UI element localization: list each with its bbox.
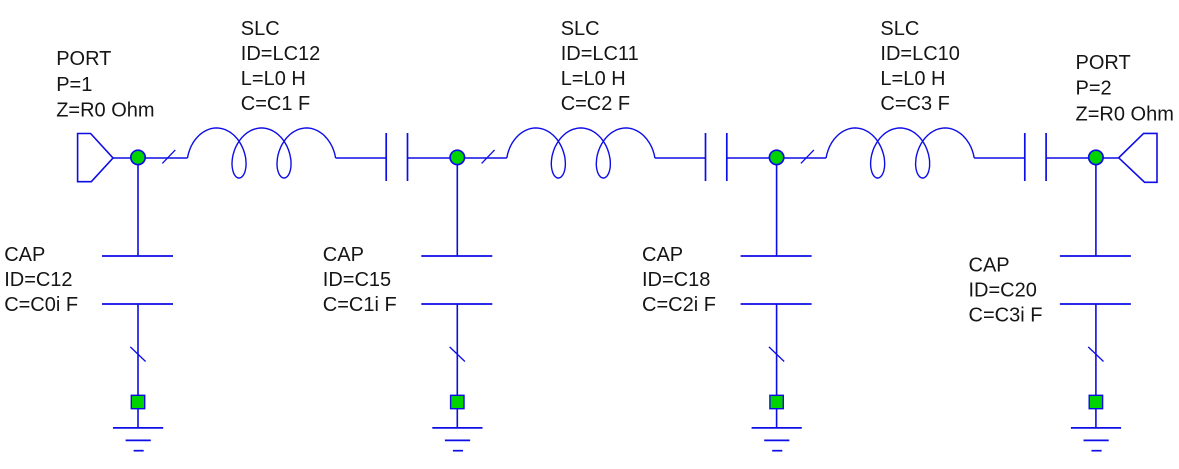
- svg-text:P=1: P=1: [56, 74, 92, 96]
- svg-text:ID=C12: ID=C12: [4, 269, 72, 291]
- svg-text:C=C1 F: C=C1 F: [241, 93, 310, 115]
- svg-text:L=L0 H: L=L0 H: [880, 68, 945, 90]
- svg-text:ID=C18: ID=C18: [642, 269, 710, 291]
- svg-text:C=C1i F: C=C1i F: [323, 294, 397, 316]
- svg-text:PORT: PORT: [56, 48, 111, 70]
- svg-text:L=L0 H: L=L0 H: [561, 68, 626, 90]
- svg-text:ID=LC12: ID=LC12: [241, 43, 320, 65]
- svg-text:CAP: CAP: [4, 244, 45, 266]
- svg-text:P=2: P=2: [1076, 78, 1112, 100]
- svg-text:C=C2 F: C=C2 F: [561, 93, 630, 115]
- svg-text:PORT: PORT: [1076, 52, 1131, 74]
- svg-text:SLC: SLC: [561, 18, 600, 40]
- svg-text:Z=R0 Ohm: Z=R0 Ohm: [56, 99, 154, 121]
- svg-text:ID=LC11: ID=LC11: [561, 43, 639, 65]
- svg-text:C=C0i F: C=C0i F: [4, 294, 78, 316]
- svg-text:ID=LC10: ID=LC10: [880, 43, 960, 65]
- svg-text:SLC: SLC: [241, 18, 280, 40]
- svg-text:ID=C15: ID=C15: [323, 269, 391, 291]
- svg-text:C=C2i F: C=C2i F: [642, 294, 716, 316]
- svg-text:Z=R0 Ohm: Z=R0 Ohm: [1076, 104, 1174, 126]
- svg-text:ID=C20: ID=C20: [969, 279, 1037, 301]
- svg-text:SLC: SLC: [880, 18, 919, 40]
- svg-text:C=C3i F: C=C3i F: [969, 304, 1043, 326]
- svg-text:L=L0 H: L=L0 H: [241, 68, 306, 90]
- svg-text:CAP: CAP: [969, 254, 1010, 276]
- svg-text:CAP: CAP: [323, 244, 364, 266]
- svg-text:C=C3 F: C=C3 F: [880, 93, 949, 115]
- svg-text:CAP: CAP: [642, 244, 683, 266]
